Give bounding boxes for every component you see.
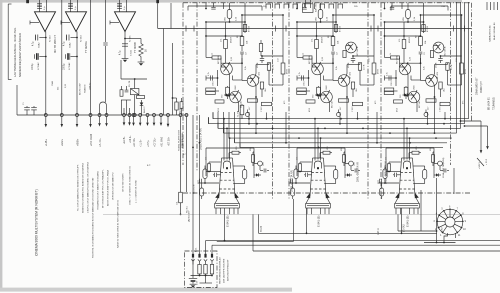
- svg-text:0,1μ: 0,1μ: [75, 6, 77, 10]
- bus junction dots: [248, 118, 445, 149]
- link tick: [370, 26, 372, 32]
- board border right pair A: [450, 3, 452, 165]
- rail capacitor 1: [23, 102, 30, 115]
- svg-text:BC 558 B: BC 558 B: [445, 46, 447, 56]
- bus rail 1 left riser: [212, 113, 214, 119]
- board border left pair A: [182, 3, 184, 165]
- bottom trim node: [246, 110, 250, 117]
- link tick: [377, 26, 379, 32]
- ground below R16: [138, 61, 145, 63]
- op-amp U3 output wire: [124, 32, 126, 59]
- tube V3 neck: [399, 158, 415, 196]
- svg-text:BOARD RO (T MAAS) PO2 BOARD OH: BOARD RO (T MAAS) PO2 BOARD OH 11 MAITRA: [82, 163, 85, 213]
- feed resistor oval: [403, 3, 416, 23]
- tube V1 right cluster resistor: [251, 152, 254, 166]
- svg-text:+PO OHM: +PO OHM: [89, 134, 93, 146]
- svg-text:C6A4: C6A4: [51, 80, 54, 86]
- emitter resistor: [222, 86, 230, 99]
- bottom resistor row C: [352, 102, 363, 112]
- wire y15 drop: [373, 14, 375, 56]
- diagonal wire: [477, 158, 484, 166]
- svg-text:2,2k: 2,2k: [245, 66, 247, 70]
- right feeder wire 1: [456, 2, 458, 133]
- right cap: [351, 56, 355, 63]
- right cap: [260, 56, 264, 63]
- emitter capacitor: [385, 70, 397, 86]
- block wire mesh: [296, 21, 374, 112]
- supply wires above U3: [120, 0, 127, 12]
- collector resistor R2: [237, 14, 249, 51]
- wire y15 drop: [461, 14, 463, 56]
- op-amp U1 label: [50, 35, 58, 53]
- tube V1 right cluster cap: [260, 169, 269, 173]
- top edge frame right: [391, 6, 448, 11]
- tube V3 enclosure: [386, 148, 434, 178]
- riser cap: [125, 86, 129, 92]
- svg-text:SU/JC1: SU/JC1: [187, 205, 189, 213]
- board border top dash-dot: [183, 2, 472, 4]
- svg-text:ZUMAT (3T: ZUMAT (3T: [480, 81, 483, 93]
- svg-text:F.BOSH M, IN (T MAAS) FU2 BOAR: F.BOSH M, IN (T MAAS) FU2 BOARD IN BO (F…: [92, 177, 95, 258]
- transistor Q2: [426, 70, 439, 92]
- diode base Q3: [315, 93, 322, 96]
- resistor R39K b: [180, 98, 183, 115]
- svg-text:BY164: BY164: [427, 25, 429, 32]
- svg-text:C6A2: C6A2: [69, 42, 72, 48]
- input resistor: [297, 53, 312, 67]
- branch wire to R16: [124, 38, 141, 44]
- tube V3 right cluster cap: [440, 169, 449, 173]
- tube V2 anode wire: [306, 208, 308, 234]
- svg-text:+AF 04+: +AF 04+: [133, 137, 136, 147]
- tube V2 left resistor: [297, 162, 312, 172]
- svg-text:NACH 91 TONE OHNE 91 SAT CHASS: NACH 91 TONE OHNE 91 SAT CHASS AB CH 91: [117, 199, 120, 248]
- right feeder wire 2: [460, 2, 462, 128]
- supply wires above U1: [40, 0, 47, 12]
- board boundary 2-3 B: [380, 3, 382, 200]
- bus rail 6 left riser: [234, 139, 236, 143]
- svg-text:C15: C15: [354, 163, 356, 166]
- wire riser x126.5: [126, 100, 128, 115]
- emitter capacitor: [206, 70, 218, 86]
- relay K1 box: [129, 79, 139, 117]
- feedback wire 1: [61, 0, 63, 115]
- notes column right pair: [129, 166, 138, 205]
- capacitor C641: [120, 44, 133, 56]
- riser resistor: [120, 86, 123, 96]
- svg-text:E 841 (B): E 841 (B): [406, 216, 410, 227]
- bottom resistor row A: [394, 100, 403, 103]
- bottom resistor row B: [248, 99, 258, 110]
- connector resistor 1: [198, 264, 201, 275]
- svg-text:L13 R: L13 R: [273, 64, 275, 70]
- tube V1 cathode dome: [223, 161, 230, 169]
- transistor Q4 upper: [346, 42, 359, 56]
- svg-text:L50 R: L50 R: [348, 62, 350, 68]
- bias resistor: [334, 25, 341, 33]
- svg-text:EAT 2S0: EAT 2S0: [315, 3, 318, 12]
- svg-text:M55: M55: [250, 147, 252, 151]
- link wire stub: [157, 3, 159, 28]
- emitter capacitor: [297, 70, 309, 86]
- svg-text:M3 R: M3 R: [287, 69, 289, 74]
- decoupling capacitor above U1: [37, 3, 46, 10]
- svg-text:SU 18 1 M: SU 18 1 M: [194, 184, 196, 194]
- input resistor: [206, 53, 221, 67]
- speaker connector P1: [44, 114, 47, 128]
- speaker connector P3: [76, 114, 79, 128]
- tube V3 right cluster resistor: [431, 152, 434, 166]
- tube V1 neck: [219, 158, 235, 196]
- base resistor R1: [399, 22, 411, 63]
- resistor on x180.5 wire: [177, 192, 183, 215]
- board bottom dash-dot: [183, 192, 472, 194]
- tube V1 base: [215, 203, 240, 208]
- svg-text:1Z RA2: 1Z RA2: [68, 62, 71, 70]
- tube V3 left cap 2: [378, 179, 382, 183]
- bus rail 3: [218, 127, 461, 129]
- supply wires above U2: [71, 0, 78, 12]
- tube V1 right cluster diode: [254, 173, 261, 176]
- svg-text:CH 91 SAT CHASS: CH 91 SAT CHASS: [122, 173, 125, 192]
- tube V2 top-right resistor: [320, 147, 332, 158]
- bias wire: [423, 3, 425, 33]
- svg-text:BC 547: BC 547: [332, 100, 334, 108]
- svg-text:BY164: BY164: [249, 25, 251, 32]
- value labels: [299, 56, 377, 112]
- svg-text:+E1 B+: +E1 B+: [124, 136, 126, 144]
- svg-text:IC 664: IC 664: [81, 35, 83, 42]
- notes column block: [77, 162, 125, 258]
- svg-text:E 841 (B): E 841 (B): [317, 216, 321, 227]
- svg-text:22k: 22k: [58, 87, 60, 90]
- svg-text:2,2k: 2,2k: [336, 66, 338, 70]
- top-left connector stub: [26, 0, 29, 3]
- extra drop 2: [128, 108, 131, 126]
- svg-text:1000μ: 1000μ: [63, 63, 65, 70]
- svg-text:M55: M55: [430, 147, 432, 151]
- board label far left: [178, 129, 185, 151]
- tube V1 right labels: [250, 147, 265, 166]
- connector ground: [190, 283, 197, 285]
- svg-text:BC 558 B: BC 558 B: [357, 46, 359, 56]
- transistor Q3: [230, 90, 243, 108]
- svg-text:BOARD SIGNAL: BOARD SIGNAL: [181, 132, 184, 148]
- decoupling capacitor above U2: [68, 3, 77, 10]
- svg-text:BD 250 10W: BD 250 10W: [80, 84, 82, 95]
- bus rail 4: [224, 132, 457, 134]
- connector pin 1: [191, 254, 194, 265]
- return wire B: [217, 199, 294, 241]
- driver resistor vertical: [372, 56, 379, 85]
- svg-text:BA 127: BA 127: [143, 105, 146, 113]
- diode D1: [140, 100, 146, 115]
- top right stubs: [487, 2, 498, 10]
- bottom resistor pair: [206, 88, 219, 95]
- svg-text:ANSCHLUSSFELD NF: ANSCHLUSSFELD NF: [227, 259, 230, 281]
- svg-text:4,7μ: 4,7μ: [32, 41, 34, 46]
- top rail y22: [297, 21, 336, 23]
- op-amp U2 output wire: [76, 32, 78, 116]
- collector resistor R2: [328, 14, 340, 51]
- svg-text:C6A2: C6A2: [37, 42, 40, 48]
- block wire mesh: [205, 21, 283, 112]
- tube1 base lead 2: [199, 115, 201, 255]
- tube V3 left oval: [380, 183, 384, 199]
- svg-text:M55 R: M55 R: [322, 36, 324, 43]
- return wire A: [259, 214, 438, 233]
- svg-text:+ 30 2: + 30 2: [486, 158, 488, 165]
- tube V3 base stubs: [396, 208, 418, 214]
- transistor Q1: [218, 55, 232, 97]
- feedback wire 2: [90, 0, 92, 115]
- signal link wire y28.5: [158, 28, 472, 30]
- svg-text:IT BOARD RO OK T MAAS FU2 BOAR: IT BOARD RO OK T MAAS FU2 BOARD: [97, 171, 100, 210]
- tube V2 left cap 2: [289, 179, 293, 183]
- stub cap x105: [103, 43, 107, 102]
- Q2 emitter resistor: [439, 82, 446, 97]
- cluster feed y79: [121, 60, 147, 80]
- bus rail 5: [229, 137, 452, 139]
- svg-text:C 641: C 641: [131, 49, 133, 56]
- svg-text:7L 47B: 7L 47B: [238, 110, 240, 117]
- svg-text:BF 421: BF 421: [259, 71, 261, 79]
- socket feed wire: [424, 178, 456, 243]
- fold line: [103, 213, 500, 215]
- tube V1 flare: [215, 193, 239, 204]
- ground below U3: [122, 58, 129, 60]
- tube V1 enclosure: [206, 148, 254, 178]
- wire down x186.5: [185, 114, 188, 193]
- tube V2 left wire: [289, 182, 311, 184]
- svg-text:H 163: H 163: [261, 225, 263, 232]
- svg-text:M3 R: M3 R: [465, 69, 467, 74]
- tube V1 right getter: [233, 166, 247, 184]
- battery B1: [189, 259, 199, 286]
- svg-text:NIEDERFREQUENZ VERSTÄRKER: NIEDERFREQUENZ VERSTÄRKER: [18, 33, 22, 77]
- tube V1 left oval: [200, 183, 204, 199]
- svg-text:4,7k: 4,7k: [299, 72, 301, 76]
- tube V3 right cluster node: [434, 161, 442, 170]
- tube V3 right labels: [430, 147, 445, 166]
- block feed pins (x+178.5): [384, 3, 402, 10]
- svg-text:WEISS/BRAUN/GELB/BLAU: WEISS/BRAUN/GELB/BLAU: [219, 257, 222, 284]
- connector pin 4: [210, 254, 213, 265]
- svg-text:BC 547: BC 547: [241, 100, 243, 108]
- tube V2 right cluster cap: [351, 169, 360, 173]
- bias wire: [244, 3, 246, 33]
- svg-text:BLAU SIGNAL B1: BLAU SIGNAL B1: [493, 22, 496, 40]
- svg-text:L13 R: L13 R: [364, 64, 366, 70]
- connector circle x180.5: [179, 114, 185, 193]
- tube V2 flare: [306, 193, 330, 204]
- bias resistor: [243, 25, 250, 33]
- svg-text:a = nr CHASS 91 TONE: a = nr CHASS 91 TONE: [135, 179, 138, 203]
- tube V2 left cap bars: [304, 173, 312, 177]
- tube V3 right cluster diode: [434, 173, 441, 176]
- value labels: [387, 56, 465, 112]
- rail circles right: [167, 114, 171, 147]
- svg-text:GDR2: GDR2: [442, 227, 444, 233]
- transistor Q1: [309, 55, 323, 97]
- right feeder wire 3: [464, 2, 466, 124]
- transistor Q3: [321, 90, 334, 108]
- tube V3 top wires: [403, 118, 410, 161]
- connector resistor 3: [210, 264, 213, 275]
- electrolytic capacitor below U1: [32, 53, 46, 70]
- tube V3 cathode dome: [403, 161, 410, 169]
- svg-text:1Z RA2: 1Z RA2: [37, 62, 40, 70]
- svg-text:1k: 1k: [303, 53, 305, 55]
- svg-text:4,7μ: 4,7μ: [120, 50, 122, 55]
- socket tab: [442, 227, 456, 243]
- link tick: [275, 26, 277, 32]
- tube V1 top wires: [223, 118, 230, 161]
- aux connector X4: [153, 114, 156, 127]
- block feed pins (x+0): [205, 3, 223, 10]
- bottom trim node: [337, 110, 341, 117]
- tube V2 top wires: [314, 118, 321, 161]
- bus rail 4 left riser: [223, 127, 225, 133]
- svg-text:C15: C15: [443, 163, 445, 166]
- block wire mesh: [384, 21, 462, 112]
- svg-text:2,2k: 2,2k: [424, 66, 426, 70]
- link tick: [185, 26, 187, 32]
- right margin text top: [489, 22, 496, 42]
- aux connector X3: [146, 114, 149, 127]
- connector pin 3: [204, 254, 207, 265]
- svg-text:U53: U53: [236, 147, 238, 150]
- board border right pair B: [471, 3, 473, 122]
- svg-text:L50 R: L50 R: [436, 62, 438, 68]
- extra drop 1: [123, 108, 126, 126]
- tube V2 left capacitor: [294, 166, 298, 184]
- connector bottom rail: [191, 275, 213, 277]
- svg-text:IC 663: IC 663: [50, 35, 52, 42]
- left margin caption text: [13, 27, 22, 77]
- extra drop labels: [124, 135, 132, 144]
- bottom resistor row A: [215, 100, 224, 103]
- transistor Q2: [247, 70, 260, 92]
- svg-text:FU 7B: FU 7B: [129, 80, 131, 87]
- connector labels: [219, 257, 230, 284]
- feed resistor oval: [225, 3, 238, 23]
- rail left riser: [16, 85, 18, 115]
- coupling capacitor C6A1: [32, 35, 46, 49]
- block1 upper resistor: [259, 40, 262, 56]
- emitter resistor: [400, 86, 408, 99]
- loop wire pair: [98, 102, 108, 147]
- supply arrow +30V: [464, 125, 489, 165]
- svg-text:143 11: 143 11: [378, 227, 380, 235]
- transistor Q1: [397, 55, 411, 97]
- svg-text:BY164: BY164: [340, 25, 342, 32]
- bottom resistor row B: [426, 99, 436, 110]
- svg-text:BC 547: BC 547: [419, 100, 421, 108]
- bottom resistor row C: [440, 102, 451, 112]
- Q2 emitter resistor: [351, 82, 358, 97]
- wire y15 drop: [282, 14, 284, 56]
- aux connector X1: [132, 114, 135, 127]
- edge connector box top: [303, 0, 318, 12]
- svg-text:TY 4E55A: TY 4E55A: [84, 41, 88, 53]
- cluster top rail: [121, 99, 131, 101]
- svg-text:TDA2030: TDA2030: [84, 84, 87, 93]
- speaker rail: [17, 114, 188, 116]
- svg-text:BF 421: BF 421: [437, 71, 439, 79]
- svg-text:C 663: C 663: [440, 106, 442, 112]
- svg-text:ZUR LAUTSPR. BUCHSE: ZUR LAUTSPR. BUCHSE: [223, 258, 226, 283]
- block drop wires: [248, 112, 446, 144]
- right feeder wire 4: [468, 2, 470, 119]
- top rail y22: [385, 21, 424, 23]
- block feed pins (x+91): [296, 3, 314, 10]
- svg-text:C 663: C 663: [261, 106, 263, 112]
- left border bracket: [8, 4, 11, 80]
- svg-text:+C4 2+: +C4 2+: [130, 135, 132, 143]
- op-amp U3 label: [130, 35, 138, 53]
- tube V2 grid dashes: [310, 173, 325, 190]
- speaker connector P4: [89, 114, 92, 128]
- transistor Q2: [338, 70, 351, 92]
- svg-text:L7L C1L: L7L C1L: [99, 137, 102, 147]
- tube V3 left resistor: [386, 162, 401, 172]
- tube V2 left oval: [291, 183, 295, 199]
- bus rail risers top joins: [209, 112, 241, 147]
- svg-text:MC TB M05 CT: MC TB M05 CT: [53, 35, 57, 53]
- transistor Q3: [408, 90, 421, 108]
- emitter resistor: [313, 86, 321, 99]
- bottom resistor row A: [306, 100, 315, 103]
- input resistor: [385, 53, 400, 67]
- tube V3 right getter: [413, 166, 427, 184]
- tube V1 left wire: [198, 182, 220, 184]
- bias resistor: [422, 25, 429, 33]
- svg-text:L13 R: L13 R: [451, 64, 453, 70]
- bottom resistor row C: [261, 102, 272, 112]
- tube V2 base stubs: [307, 208, 329, 214]
- resistor cluster box: [137, 96, 145, 99]
- wire riser x121.5: [121, 100, 123, 115]
- bus rail 5 left riser: [228, 132, 230, 138]
- tube V3 left cap bars: [393, 173, 401, 177]
- tube V3 flare: [395, 193, 419, 204]
- wire riser x163.5: [163, 29, 165, 116]
- tube V2 right getter: [324, 166, 338, 184]
- svg-text:M55 R: M55 R: [231, 36, 233, 43]
- return wire D: [212, 245, 500, 254]
- svg-text:+L/B+: +L/B+: [44, 139, 48, 146]
- right cap: [438, 56, 442, 63]
- tube V1 top-right resistor: [229, 147, 241, 158]
- board boundary 1-2 B: [288, 3, 290, 200]
- svg-text:+1L B+: +1L B+: [140, 139, 143, 147]
- board border left pair B: [196, 3, 198, 172]
- return wire C: [206, 241, 500, 255]
- link tick: [193, 26, 195, 32]
- op-amp U3: [110, 12, 136, 32]
- tube V1 left capacitor: [203, 166, 207, 184]
- bus rail 2 left riser: [208, 118, 210, 124]
- tube V3 left capacitor: [383, 166, 387, 184]
- diode base Q3: [224, 93, 231, 96]
- op-amp U1: [30, 12, 56, 32]
- bus rail 2: [209, 123, 465, 125]
- link tick: [464, 26, 466, 32]
- tube V2 enclosure: [297, 148, 345, 178]
- svg-text:BF-STUECK B/AF PUS, O/ LPMAA B: BF-STUECK B/AF PUS, O/ LPMAA BP L: [102, 168, 105, 208]
- board boundary 1-2 A: [272, 3, 274, 200]
